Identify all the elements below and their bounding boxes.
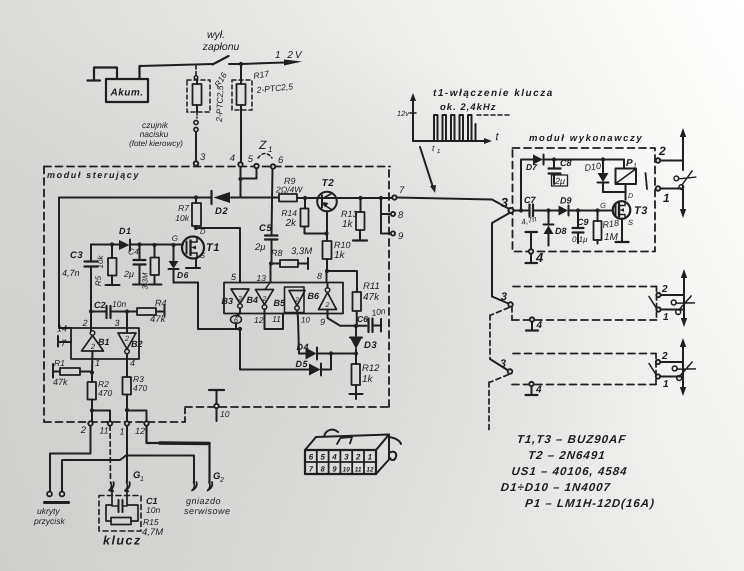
wire node3 to gate [514, 210, 529, 212]
svg-text:4: 4 [535, 250, 544, 265]
svg-text:4: 4 [536, 320, 543, 331]
svg-text:12: 12 [366, 467, 374, 474]
svg-text:1k: 1k [362, 374, 374, 385]
wire B1 out [91, 351, 94, 373]
connector wire curl left [324, 430, 338, 437]
resistor R6 [154, 245, 156, 258]
scissors group1 [673, 168, 698, 191]
svg-text:13: 13 [257, 273, 267, 283]
IC B1 B2 box [71, 328, 139, 359]
resistor R4 [127, 311, 137, 313]
resistor R16 dashed box [187, 80, 210, 112]
svg-text:D7: D7 [526, 162, 538, 172]
capacitor C2 [105, 306, 107, 318]
svg-text:1k: 1k [334, 250, 346, 261]
svg-text:D9: D9 [560, 196, 572, 206]
svg-text:przycisk: przycisk [33, 516, 65, 526]
svg-text:D4: D4 [296, 342, 309, 352]
wire gate rail [91, 244, 183, 246]
resistor R12 [355, 354, 357, 365]
relay contact blade [646, 173, 648, 189]
svg-text:D6: D6 [177, 270, 189, 280]
group2 contact 2 [656, 293, 660, 297]
svg-text:3: 3 [200, 152, 206, 163]
module box modul sterujacy [44, 166, 390, 168]
diode D1 [119, 240, 130, 250]
svg-text:2-PTC2,5: 2-PTC2,5 [214, 85, 225, 123]
resistor R9 [279, 194, 297, 202]
node C4 top [137, 242, 141, 246]
node C3 C2 [89, 309, 93, 313]
svg-text:4: 4 [230, 153, 235, 164]
svg-text:gniazdo: gniazdo [186, 496, 221, 506]
svg-text:2: 2 [355, 453, 361, 462]
inverter B1 [90, 331, 95, 336]
pin 10 jack [209, 389, 224, 391]
wire D4 D5 to D3 [331, 353, 356, 355]
svg-text:470: 470 [133, 383, 147, 393]
relay contact 1 [656, 186, 661, 191]
inverter B6 [319, 293, 337, 310]
wire pins 12 11 bracket [265, 309, 284, 329]
arrow waveform to wire [420, 147, 433, 188]
svg-text:2: 2 [81, 318, 87, 328]
svg-text:4,7M: 4,7M [142, 527, 163, 538]
svg-text:2μ: 2μ [554, 176, 565, 186]
svg-text:7: 7 [399, 185, 405, 196]
capacitor C4 [139, 245, 141, 260]
svg-text:1: 1 [663, 312, 669, 323]
svg-text:R1: R1 [54, 358, 65, 368]
diode D7 [533, 155, 543, 165]
resistor R2 [91, 373, 93, 383]
wire pin 9 [328, 310, 357, 326]
wire pin1 to G1 [126, 426, 128, 482]
svg-text:9: 9 [332, 465, 337, 474]
inverter B5 box [285, 287, 305, 313]
diode D8 [548, 211, 550, 225]
socket G2 [192, 482, 197, 491]
parts list [498, 434, 662, 510]
svg-text:1: 1 [663, 379, 669, 390]
resistor R18 [597, 211, 599, 222]
svg-text:10: 10 [301, 316, 310, 325]
svg-text:R13: R13 [341, 209, 358, 219]
diode D4 [299, 353, 306, 355]
key loop with R15 [106, 505, 138, 521]
svg-text:3: 3 [344, 453, 349, 462]
svg-text:2μ: 2μ [123, 269, 134, 279]
resistor R8 [271, 263, 280, 265]
svg-text:5: 5 [248, 154, 254, 165]
node R13 top [358, 196, 362, 200]
scissors group3 [671, 358, 697, 381]
svg-text:wył.: wył. [207, 29, 225, 41]
svg-text:C9: C9 [577, 217, 589, 227]
group3 contact 1 [656, 374, 660, 378]
svg-text:R7: R7 [178, 203, 189, 213]
wire pin13 [270, 264, 272, 283]
svg-text:D10: D10 [584, 161, 602, 173]
svg-text:R18: R18 [602, 218, 620, 230]
svg-text:D: D [628, 193, 633, 200]
svg-text:2: 2 [294, 297, 299, 304]
svg-text:zapłonu: zapłonu [202, 41, 240, 53]
wire pin5 to pin4 node [241, 168, 257, 178]
switch wyl. zaplonu [213, 56, 229, 65]
svg-text:9: 9 [398, 231, 404, 242]
svg-text:3,3M: 3,3M [291, 246, 312, 257]
wire rail mid [231, 197, 279, 199]
node R7 top [194, 195, 198, 199]
node small circle [194, 76, 198, 80]
hidden button ukryty przycisk [47, 492, 52, 497]
svg-text:D1: D1 [119, 226, 132, 236]
wire rail left drop to pin14 [59, 198, 71, 329]
svg-text:1: 1 [268, 145, 272, 154]
svg-text:R14: R14 [281, 208, 297, 218]
resistor R5 [111, 245, 113, 259]
svg-text:R17: R17 [253, 68, 270, 81]
svg-text:(fotel kierowcy): (fotel kierowcy) [129, 139, 183, 148]
svg-text:T2 – 2N6491: T2 – 2N6491 [527, 450, 606, 462]
svg-text:B2: B2 [131, 339, 143, 349]
svg-text:1: 1 [140, 476, 144, 483]
sensor contacts czujnik nacisku [196, 112, 198, 118]
wire T1 source ground [195, 258, 197, 267]
svg-text:1: 1 [95, 358, 100, 368]
node C9 [576, 208, 580, 212]
pin 11 [108, 421, 112, 425]
svg-text:2: 2 [124, 334, 130, 343]
wire main rail left [59, 197, 211, 199]
node R3 bottom [125, 408, 129, 412]
waveform pulses [434, 115, 476, 141]
svg-text:2: 2 [219, 477, 224, 484]
wire pin4 to rail [240, 167, 242, 198]
terminal bar R13 [353, 239, 367, 241]
svg-text:G: G [172, 234, 178, 243]
svg-text:R11: R11 [363, 281, 380, 292]
resistor R10 [326, 234, 328, 242]
capacitor C8 [553, 160, 555, 169]
svg-text:T1: T1 [206, 242, 220, 254]
svg-text:D8: D8 [555, 226, 567, 236]
svg-text:C6: C6 [357, 314, 368, 324]
svg-text:7: 7 [309, 465, 314, 474]
svg-text:D3: D3 [364, 340, 377, 351]
waveform axes [412, 100, 414, 141]
svg-text:B1: B1 [98, 337, 110, 347]
svg-text:10: 10 [220, 409, 230, 419]
wire 12V rail [140, 63, 284, 67]
node 3 group2 [492, 297, 509, 304]
resistor R11 [353, 292, 362, 311]
pin 6 oval [237, 314, 241, 317]
svg-text:C7: C7 [524, 195, 536, 205]
wire dashed to R16 [195, 66, 197, 75]
resistor R17 [237, 84, 246, 105]
svg-text:1: 1 [633, 163, 637, 170]
diode D10 [602, 160, 604, 173]
svg-text:10k: 10k [175, 213, 189, 223]
capacitor C7 [528, 205, 530, 217]
diode D5 [240, 329, 309, 370]
pin 4 exec [526, 231, 538, 233]
svg-text:8: 8 [321, 465, 326, 474]
wire rail right [297, 197, 393, 199]
group2 blade [649, 297, 656, 308]
wire up to top rail [521, 160, 533, 211]
svg-text:12v: 12v [397, 109, 410, 118]
relay contact 2 [656, 158, 661, 163]
group3 blade [649, 364, 656, 375]
svg-text:47k: 47k [363, 292, 380, 303]
arrow 12V [284, 60, 302, 66]
transistor T2 [317, 192, 337, 212]
svg-text:R8: R8 [271, 248, 283, 258]
svg-text:1M: 1M [604, 232, 619, 243]
group3 wires to load [660, 362, 683, 377]
node junction at R17 top [239, 62, 243, 66]
group3 dashed frame [513, 353, 656, 355]
svg-text:C5: C5 [259, 223, 272, 234]
node R6 top [152, 243, 156, 247]
wire pin8 stub [326, 271, 328, 283]
node 3 group3 [490, 359, 508, 370]
capacitor C5 [265, 234, 278, 236]
svg-text:10n: 10n [371, 306, 387, 318]
svg-text:10n: 10n [146, 505, 160, 515]
pin 7 stub [59, 341, 71, 343]
wire drain to pin5 [196, 228, 240, 283]
svg-text:C3: C3 [70, 250, 83, 261]
resistor R1 [52, 364, 54, 378]
pin 9 [391, 231, 395, 235]
connector block top face [305, 435, 389, 451]
battery Akum. [88, 68, 118, 81]
svg-text:T2: T2 [322, 178, 335, 189]
wire button to G2 [62, 456, 194, 492]
svg-text:R10: R10 [334, 240, 351, 250]
svg-text:R15: R15 [143, 517, 159, 527]
resistor R14 [304, 198, 306, 209]
svg-text:4,7n: 4,7n [62, 268, 80, 278]
wire T2 emitter down [326, 211, 328, 233]
svg-text:moduł wykonawczy: moduł wykonawczy [529, 133, 643, 144]
resistor R17 dashed box [232, 80, 252, 110]
svg-text:2: 2 [661, 284, 668, 295]
svg-text:10n: 10n [112, 299, 126, 309]
wire pin 10 to D4 [297, 310, 299, 353]
wire pin2 pin3 stubs [90, 312, 92, 332]
capacitor C6 [356, 325, 367, 327]
wire top rail [544, 159, 624, 161]
svg-text:C2: C2 [94, 300, 106, 310]
svg-text:6: 6 [309, 453, 314, 462]
wire D6 to pin6 bus [174, 283, 241, 330]
svg-text:3: 3 [501, 291, 507, 303]
node pin8 wire [325, 269, 329, 273]
node D10 top [601, 157, 605, 161]
svg-text:D2: D2 [215, 206, 228, 217]
svg-text:2: 2 [661, 351, 668, 362]
svg-text:5: 5 [231, 272, 237, 282]
svg-text:G: G [600, 201, 606, 210]
wire contacts to load [660, 161, 683, 189]
group2 wires to load [661, 295, 684, 310]
svg-text:5: 5 [320, 453, 325, 462]
wire pin7 to node 3 [397, 198, 509, 209]
capacitor C9 [577, 211, 579, 228]
capacitor C1 [118, 500, 120, 512]
svg-text:11: 11 [355, 467, 362, 474]
svg-text:2μ: 2μ [254, 242, 266, 253]
svg-text:9: 9 [320, 317, 325, 327]
wire pin11 to G1 dashed [109, 426, 112, 482]
svg-text:moduł sterujący: moduł sterujący [47, 170, 140, 180]
svg-text:47k: 47k [53, 377, 68, 387]
group3 load arrows [682, 346, 684, 390]
resistor R3 [123, 377, 132, 395]
group2 pin 4 [530, 317, 534, 321]
svg-text:1: 1 [368, 453, 373, 462]
svg-text:2k: 2k [284, 218, 297, 229]
svg-text:S: S [628, 218, 633, 227]
svg-text:t1-włączenie klucza: t1-włączenie klucza [433, 88, 554, 99]
wire node3 down [492, 213, 510, 297]
svg-text:t: t [432, 143, 435, 153]
resistor R13 [360, 198, 362, 212]
wire R14 to emitter node [305, 227, 327, 234]
svg-text:T1,T3 – BUZ90AF: T1,T3 – BUZ90AF [516, 434, 627, 446]
pin 8 [391, 212, 395, 216]
svg-text:R4: R4 [155, 298, 167, 308]
svg-text:2-PTC2,5: 2-PTC2,5 [255, 81, 293, 95]
inverter B2 [118, 333, 136, 349]
group3 pin 4 [529, 382, 533, 386]
svg-text:T3: T3 [634, 205, 648, 217]
module box modul wykonawczy [513, 148, 656, 252]
pin 3 [194, 161, 198, 165]
svg-text:B6: B6 [307, 291, 319, 301]
svg-text:12: 12 [254, 315, 264, 325]
wire sensor to pin 3 [195, 132, 197, 161]
svg-text:1: 1 [119, 427, 124, 437]
wire R11 to C6 node [356, 311, 358, 326]
svg-text:ukryty: ukryty [37, 506, 60, 516]
svg-text:t: t [495, 131, 499, 143]
wire pin2 to hidden button [50, 426, 91, 492]
wire pin12 to G2 [147, 426, 210, 483]
svg-text:D1÷D10 – 1N4007: D1÷D10 – 1N4007 [500, 482, 611, 494]
svg-text:R5: R5 [94, 275, 103, 286]
svg-text:10k: 10k [96, 255, 105, 269]
svg-text:R12: R12 [362, 363, 380, 374]
svg-text:2Ω/4W: 2Ω/4W [275, 185, 303, 195]
node 3 exec [509, 208, 514, 213]
svg-text:C8: C8 [560, 158, 572, 168]
svg-text:B3: B3 [221, 296, 233, 306]
diode D9 [549, 210, 559, 212]
node 3 redraw [509, 208, 514, 213]
svg-text:10: 10 [343, 467, 351, 474]
node R2 bottom [90, 408, 94, 412]
svg-text:2: 2 [262, 296, 267, 303]
group3 contact 2 [656, 360, 660, 364]
svg-text:47k: 47k [150, 314, 167, 325]
pin 5 [254, 164, 258, 168]
svg-text:14: 14 [57, 324, 67, 334]
svg-text:6: 6 [278, 155, 284, 166]
svg-text:D5: D5 [295, 359, 308, 369]
wire pin6 to C5 [272, 169, 273, 235]
diode D2 [210, 191, 212, 204]
waveform dashed level [477, 114, 509, 116]
svg-text:2: 2 [90, 342, 96, 351]
group2 contact 1 [656, 307, 660, 311]
svg-text:S: S [200, 251, 205, 260]
svg-text:nacisku: nacisku [140, 129, 169, 139]
svg-text:2: 2 [237, 296, 242, 303]
svg-text:4: 4 [130, 358, 135, 368]
group2 dashed to group3 [490, 308, 509, 360]
svg-text:4: 4 [331, 453, 337, 462]
svg-text:P: P [626, 158, 633, 169]
svg-text:1 2V: 1 2V [275, 50, 304, 61]
svg-text:1: 1 [437, 148, 440, 155]
svg-text:0,1μ: 0,1μ [572, 235, 588, 244]
group3 dashed below [489, 375, 509, 431]
wire P1 bottom to T3 drain [603, 184, 626, 200]
svg-text:B5: B5 [273, 298, 285, 308]
load line arrows group1 [682, 136, 684, 210]
node D8 [546, 208, 550, 212]
scissors group2 [670, 292, 696, 315]
pins 3 4 5 6 redraw [194, 161, 198, 165]
svg-text:ok. 2,4kHz: ok. 2,4kHz [440, 102, 496, 113]
svg-text:4,7n: 4,7n [520, 214, 538, 227]
capacitor C3 [90, 245, 92, 262]
svg-text:B4: B4 [246, 295, 258, 305]
connector block front [305, 450, 376, 474]
socket G1 [109, 482, 114, 491]
inverter B5 [289, 291, 305, 306]
resistor R16 [193, 84, 202, 105]
connector wire right [389, 437, 401, 444]
svg-text:12: 12 [135, 426, 145, 436]
diode D3 [355, 326, 357, 338]
IC US1 box [224, 283, 343, 314]
svg-text:4: 4 [535, 385, 542, 396]
svg-text:Z: Z [258, 138, 267, 152]
node D6 top [171, 243, 175, 247]
svg-text:Akum.: Akum. [109, 88, 143, 99]
wire R17 top [240, 64, 242, 84]
node R5 top [110, 242, 114, 246]
pin 4 [238, 162, 242, 166]
svg-text:C4: C4 [128, 247, 139, 257]
svg-text:3: 3 [501, 195, 509, 210]
svg-text:US1 – 40106, 4584: US1 – 40106, 4584 [511, 466, 628, 478]
svg-text:3: 3 [114, 318, 119, 328]
svg-text:1: 1 [663, 191, 670, 205]
svg-text:3: 3 [500, 358, 506, 370]
inverter B3 [231, 289, 249, 304]
key klucz dashed box [99, 496, 141, 532]
pin 12 [144, 421, 148, 425]
svg-text:1k: 1k [342, 219, 354, 230]
